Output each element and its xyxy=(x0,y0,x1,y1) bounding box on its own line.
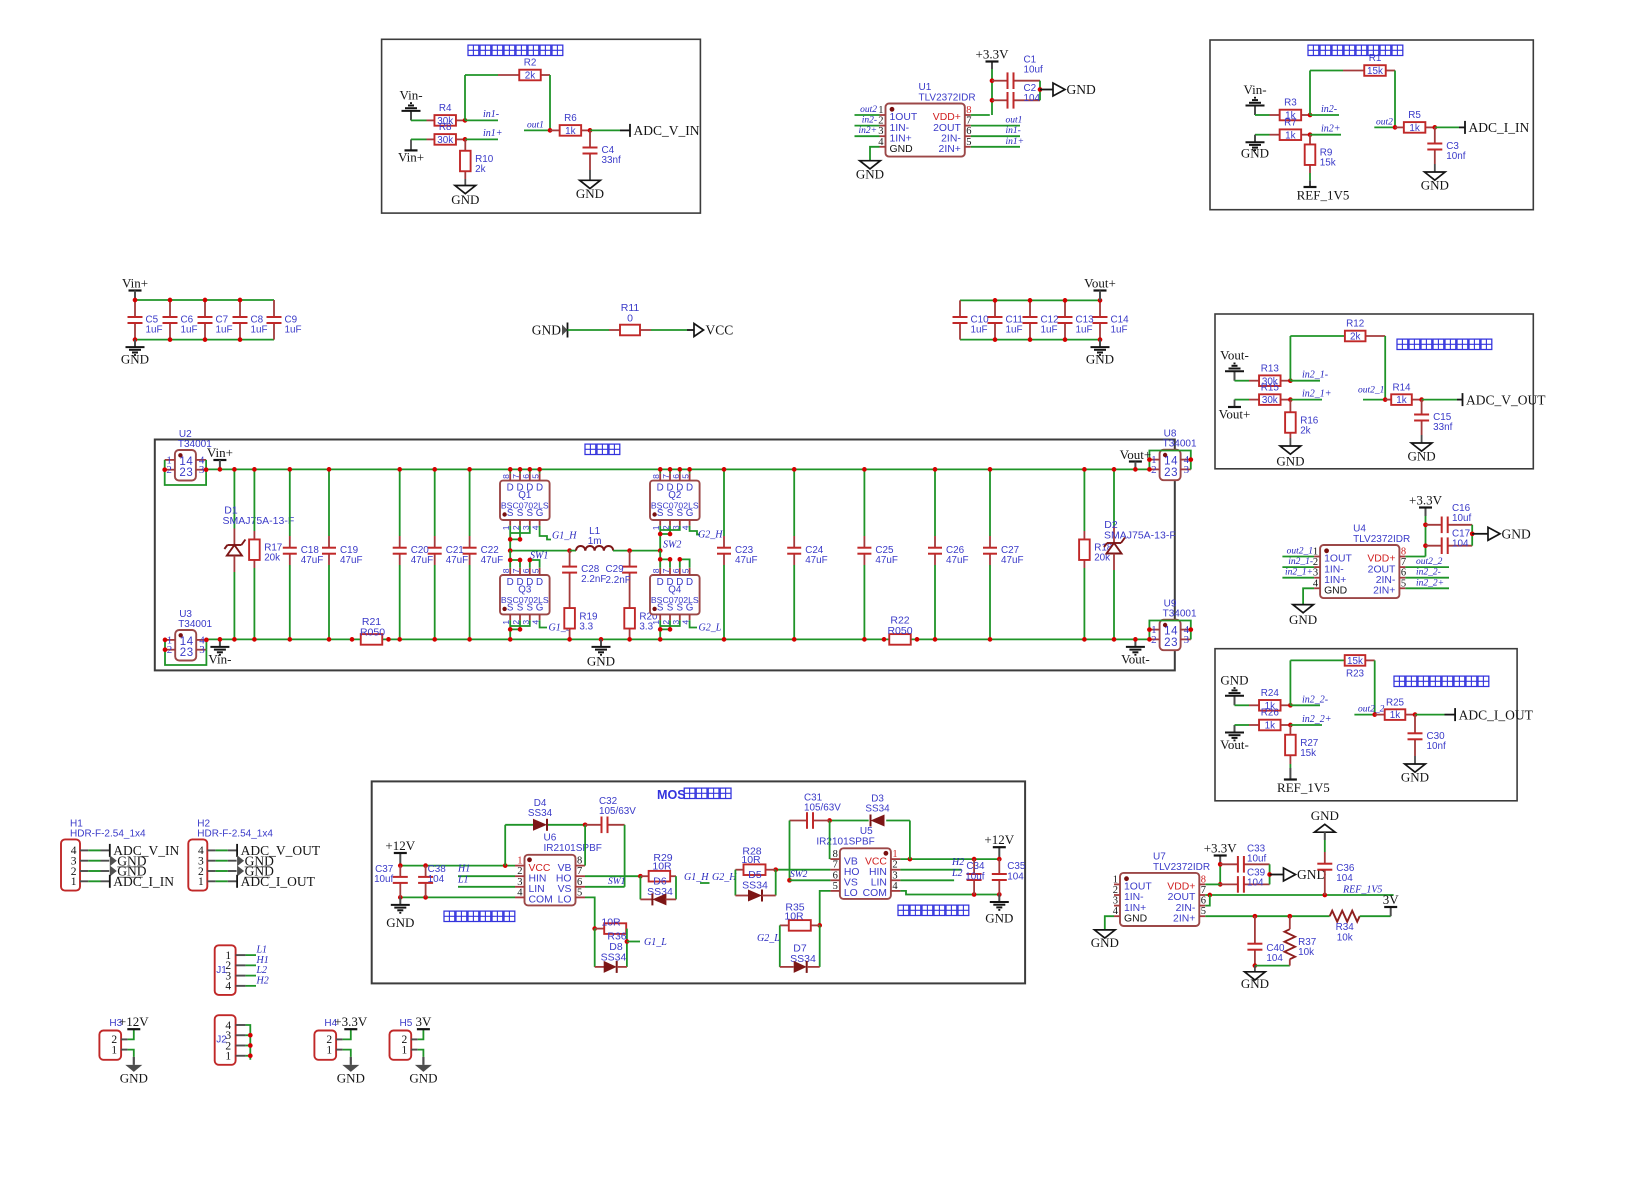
svg-text:in2-: in2- xyxy=(862,116,877,126)
svg-text:105/63V: 105/63V xyxy=(804,803,841,814)
capacitor C1 xyxy=(992,80,1008,82)
junction xyxy=(1432,125,1437,130)
svg-text:SW1: SW1 xyxy=(608,877,625,887)
svg-text:IR2101SPBF: IR2101SPBF xyxy=(544,843,602,854)
junction xyxy=(933,467,938,472)
ground xyxy=(1280,446,1301,454)
junction xyxy=(423,863,428,868)
junction xyxy=(1147,637,1152,642)
wire xyxy=(469,565,471,639)
svg-text:GND: GND xyxy=(121,352,149,367)
title input current sampling xyxy=(1308,45,1319,55)
svg-text:Q1: Q1 xyxy=(518,490,531,501)
svg-text:VCC: VCC xyxy=(706,323,734,338)
svg-text:47uF: 47uF xyxy=(946,555,969,566)
junction xyxy=(792,467,797,472)
svg-text:R050: R050 xyxy=(360,627,385,639)
resistor R23 xyxy=(1344,659,1346,661)
svg-text:30k: 30k xyxy=(1262,395,1278,406)
wire xyxy=(509,526,511,551)
capacitor C29 xyxy=(629,551,631,567)
svg-text:47uF: 47uF xyxy=(411,555,434,566)
svg-text:2k: 2k xyxy=(525,71,535,82)
wire xyxy=(1324,840,1326,852)
wire xyxy=(790,879,831,881)
svg-text:4: 4 xyxy=(1171,456,1178,468)
junction xyxy=(658,627,663,632)
svg-text:GND: GND xyxy=(576,186,604,201)
svg-text:R24: R24 xyxy=(1261,688,1280,699)
diode D1 xyxy=(227,544,241,546)
svg-text:8: 8 xyxy=(501,568,511,573)
wire xyxy=(1445,714,1456,716)
junction xyxy=(423,895,428,900)
svg-text:1IN+: 1IN+ xyxy=(1124,903,1146,914)
junction xyxy=(248,1053,253,1058)
junction xyxy=(658,548,663,553)
wire xyxy=(666,898,677,900)
svg-text:TLV2372IDR: TLV2372IDR xyxy=(1153,862,1210,873)
svg-text:in2_2-: in2_2- xyxy=(1302,694,1328,705)
svg-text:R2: R2 xyxy=(524,58,537,69)
svg-text:6: 6 xyxy=(671,474,681,479)
svg-text:8: 8 xyxy=(833,849,838,860)
svg-text:3V: 3V xyxy=(415,1014,432,1029)
svg-text:104: 104 xyxy=(1247,878,1264,889)
svg-text:in2+: in2+ xyxy=(858,126,877,136)
wire xyxy=(855,114,880,116)
junction xyxy=(638,874,643,879)
svg-text:IR2101SPBF: IR2101SPBF xyxy=(816,836,874,847)
svg-text:SMAJ75A-13-F: SMAJ75A-13-F xyxy=(223,515,295,527)
resistor R11 xyxy=(609,329,620,331)
junction xyxy=(658,557,663,562)
svg-text:+3.3V: +3.3V xyxy=(976,47,1010,62)
svg-text:104: 104 xyxy=(1452,539,1469,550)
junction xyxy=(168,337,173,342)
wire xyxy=(1289,660,1291,705)
svg-text:1: 1 xyxy=(71,876,77,888)
header H2 xyxy=(188,839,207,890)
wire xyxy=(679,559,681,567)
svg-text:8: 8 xyxy=(1401,547,1406,558)
svg-text:ADC_V_IN: ADC_V_IN xyxy=(634,123,700,138)
junction xyxy=(1308,132,1313,137)
svg-text:2k: 2k xyxy=(1300,426,1310,437)
capacitor C8 xyxy=(239,300,241,317)
wire xyxy=(246,1025,251,1060)
wire xyxy=(1457,399,1463,401)
svg-text:GND: GND xyxy=(1086,352,1114,367)
svg-text:HDR-F-2.54_1x4: HDR-F-2.54_1x4 xyxy=(197,828,273,839)
ground xyxy=(399,897,401,905)
wire xyxy=(723,565,725,639)
junction xyxy=(583,822,588,827)
wire xyxy=(1310,70,1343,72)
svg-text:1IN+: 1IN+ xyxy=(1324,575,1346,586)
wire xyxy=(246,1055,251,1057)
wire xyxy=(458,875,515,877)
junction xyxy=(677,467,682,472)
svg-text:2.2nF: 2.2nF xyxy=(581,574,606,585)
wire xyxy=(253,469,255,531)
svg-text:47uF: 47uF xyxy=(875,555,898,566)
svg-text:in2_2-: in2_2- xyxy=(1416,568,1441,578)
svg-text:Vout+: Vout+ xyxy=(1219,407,1251,422)
wire xyxy=(1040,89,1053,91)
svg-text:G2_L: G2_L xyxy=(699,623,722,634)
svg-text:out2_2: out2_2 xyxy=(1358,705,1385,715)
svg-text:Vout+: Vout+ xyxy=(1120,447,1152,462)
wire xyxy=(780,966,794,968)
svg-text:GND: GND xyxy=(1067,82,1096,97)
gate driver U5 xyxy=(840,848,891,899)
resistor R17 xyxy=(253,531,255,539)
capacitor C17 xyxy=(1426,545,1442,547)
wire xyxy=(820,891,831,926)
svg-text:2OUT: 2OUT xyxy=(933,123,961,134)
header H1 xyxy=(61,839,80,890)
svg-text:6: 6 xyxy=(966,126,971,137)
svg-text:2IN+: 2IN+ xyxy=(1373,586,1395,597)
ground xyxy=(600,639,602,647)
junction xyxy=(1288,703,1293,708)
junction xyxy=(1419,397,1424,402)
svg-text:47uF: 47uF xyxy=(735,555,758,566)
svg-text:Vout-: Vout- xyxy=(1220,348,1249,363)
svg-text:2: 2 xyxy=(167,644,173,656)
wire xyxy=(807,966,820,968)
svg-text:GND: GND xyxy=(1311,808,1339,823)
power flag +3.3V xyxy=(1219,856,1221,865)
wire xyxy=(613,550,660,552)
wire xyxy=(400,865,515,867)
junction xyxy=(773,867,778,872)
diode D2 xyxy=(1107,542,1121,544)
junction xyxy=(432,467,437,472)
wire xyxy=(960,299,1100,301)
svg-text:SW2: SW2 xyxy=(790,870,808,880)
svg-text:out1: out1 xyxy=(1006,116,1023,126)
svg-text:VCC: VCC xyxy=(865,856,887,867)
wire xyxy=(1310,114,1339,116)
op-amp U4 xyxy=(1320,545,1399,598)
wire xyxy=(1415,714,1445,716)
wire xyxy=(1235,704,1250,706)
junction xyxy=(567,637,572,642)
capacitor C33 xyxy=(1220,863,1238,865)
junction xyxy=(1133,637,1138,642)
svg-text:GND: GND xyxy=(1401,770,1429,785)
capacitor C34 xyxy=(973,859,975,874)
wire xyxy=(246,985,256,987)
box main circuit xyxy=(155,440,1175,671)
wire xyxy=(971,114,990,116)
junction xyxy=(252,637,257,642)
svg-text:1IN-: 1IN- xyxy=(1324,564,1344,575)
ground xyxy=(1234,696,1236,706)
svg-text:J1: J1 xyxy=(216,965,227,976)
wire xyxy=(1289,764,1291,768)
junction xyxy=(862,637,867,642)
global label ADC_V_IN xyxy=(629,124,631,137)
wire xyxy=(617,966,627,968)
svg-text:3: 3 xyxy=(186,467,192,479)
wire xyxy=(679,469,681,473)
power flag Vin- xyxy=(1254,106,1256,116)
svg-text:2: 2 xyxy=(166,464,172,476)
wire xyxy=(639,876,641,899)
junction xyxy=(1288,378,1293,383)
svg-text:2: 2 xyxy=(1113,885,1118,896)
capacitor C26 xyxy=(934,536,936,548)
junction xyxy=(1470,531,1475,536)
wire xyxy=(1310,134,1341,136)
svg-text:4: 4 xyxy=(1171,626,1178,638)
svg-text:1uF: 1uF xyxy=(146,325,163,336)
resistor R19 xyxy=(569,607,571,610)
svg-text:D: D xyxy=(507,483,514,494)
wire xyxy=(659,526,661,551)
svg-text:BSC0702LS: BSC0702LS xyxy=(651,595,699,605)
svg-text:+12V: +12V xyxy=(984,832,1014,847)
junction xyxy=(668,532,673,537)
svg-text:8: 8 xyxy=(577,856,582,867)
svg-text:2IN+: 2IN+ xyxy=(939,144,961,155)
wire xyxy=(584,825,586,866)
svg-text:6: 6 xyxy=(671,568,681,573)
svg-text:out2_1: out2_1 xyxy=(1287,547,1313,557)
svg-text:1: 1 xyxy=(517,856,522,867)
wire xyxy=(669,469,671,473)
junction xyxy=(398,863,403,868)
junction xyxy=(1308,113,1313,118)
wire xyxy=(410,139,412,150)
svg-text:104: 104 xyxy=(1266,953,1283,964)
svg-text:47uF: 47uF xyxy=(340,555,363,566)
junction xyxy=(599,637,604,642)
wire xyxy=(1235,380,1250,382)
svg-text:5: 5 xyxy=(681,474,691,479)
power flag +12V xyxy=(998,847,1000,859)
junction xyxy=(397,467,402,472)
junction xyxy=(527,467,532,472)
capacitor C39 xyxy=(1220,883,1238,885)
wire xyxy=(1290,335,1344,337)
wire xyxy=(510,620,520,629)
svg-text:104: 104 xyxy=(1024,93,1041,104)
power flag +12V xyxy=(127,1028,140,1030)
svg-text:7: 7 xyxy=(577,866,582,877)
wire xyxy=(659,620,661,639)
wire xyxy=(660,559,670,567)
junction xyxy=(1253,963,1258,968)
diode D5 xyxy=(748,890,762,902)
svg-text:GND: GND xyxy=(1241,146,1269,161)
svg-text:1: 1 xyxy=(326,1044,332,1056)
junction xyxy=(162,467,167,472)
svg-text:COM: COM xyxy=(529,895,553,906)
svg-text:J2: J2 xyxy=(216,1035,227,1046)
junction xyxy=(1063,337,1068,342)
junction xyxy=(398,895,403,900)
wire xyxy=(934,469,936,536)
junction xyxy=(1028,298,1033,303)
svg-text:in2_1-: in2_1- xyxy=(1288,557,1313,567)
wire xyxy=(504,825,506,866)
junction xyxy=(1218,882,1223,887)
junction xyxy=(933,637,938,642)
mosfet Q2 xyxy=(650,481,700,520)
junction xyxy=(658,467,663,472)
wire xyxy=(1309,173,1311,180)
wire xyxy=(1290,659,1344,661)
svg-text:TLV2372IDR: TLV2372IDR xyxy=(1353,534,1410,545)
global label ADC_V_OUT xyxy=(1462,393,1464,406)
header H4 xyxy=(314,1031,336,1060)
svg-text:2.2nF: 2.2nF xyxy=(606,575,631,586)
svg-text:D: D xyxy=(686,483,693,494)
wire xyxy=(418,1050,424,1057)
svg-text:2IN-: 2IN- xyxy=(1176,903,1196,914)
wire xyxy=(855,125,880,127)
ground xyxy=(1284,868,1296,881)
svg-text:1OUT: 1OUT xyxy=(1324,554,1352,565)
svg-text:10nf: 10nf xyxy=(1446,151,1465,162)
svg-text:1: 1 xyxy=(892,849,897,860)
svg-text:8: 8 xyxy=(651,474,661,479)
junction xyxy=(218,637,223,642)
capacitor C38 xyxy=(425,866,427,877)
svg-text:47uF: 47uF xyxy=(446,555,469,566)
wire xyxy=(246,1045,251,1047)
svg-text:105/63V: 105/63V xyxy=(599,806,636,817)
junction xyxy=(997,857,1002,862)
wire xyxy=(1282,577,1314,579)
wire xyxy=(1384,336,1386,400)
svg-text:7: 7 xyxy=(661,474,671,479)
power flag Vin+ xyxy=(405,149,418,151)
svg-text:G2_L: G2_L xyxy=(757,933,780,944)
svg-text:1: 1 xyxy=(1164,626,1170,638)
ground xyxy=(1293,605,1314,613)
svg-text:8: 8 xyxy=(501,474,511,479)
svg-text:LO: LO xyxy=(844,888,858,899)
junction xyxy=(990,78,995,83)
svg-text:SS34: SS34 xyxy=(742,880,768,892)
box MOS driver circuit xyxy=(372,781,1025,983)
junction xyxy=(567,548,572,553)
svg-text:U1: U1 xyxy=(919,82,932,93)
junction xyxy=(204,467,209,472)
svg-text:VB: VB xyxy=(558,863,572,874)
svg-text:R6: R6 xyxy=(564,113,577,124)
svg-text:1uF: 1uF xyxy=(1006,325,1023,336)
svg-text:R050: R050 xyxy=(887,625,912,637)
junction xyxy=(232,467,237,472)
connector J1 xyxy=(215,945,236,995)
global label ADC_I_IN xyxy=(1464,121,1466,134)
wire xyxy=(1405,577,1449,579)
svg-text:4: 4 xyxy=(517,887,523,898)
wire xyxy=(519,469,521,473)
power flag +12V xyxy=(399,853,401,866)
svg-text:G1_H: G1_H xyxy=(552,531,577,542)
wire xyxy=(509,620,511,639)
svg-text:1k: 1k xyxy=(1396,395,1406,406)
junction xyxy=(988,467,993,472)
wire xyxy=(1254,966,1256,972)
junction xyxy=(627,548,632,553)
svg-text:+12V: +12V xyxy=(119,1014,149,1029)
wire xyxy=(510,620,530,626)
svg-text:L1: L1 xyxy=(457,874,469,885)
junction xyxy=(988,637,993,642)
svg-text:T34001: T34001 xyxy=(1163,609,1197,620)
svg-text:G2_H: G2_H xyxy=(712,872,737,883)
svg-text:2: 2 xyxy=(179,467,185,479)
svg-text:U4: U4 xyxy=(1353,524,1366,535)
capacitor C5 xyxy=(134,300,136,317)
wire xyxy=(660,620,680,626)
wire xyxy=(233,572,235,639)
svg-text:R5: R5 xyxy=(1408,110,1421,121)
wire xyxy=(510,526,530,533)
wire xyxy=(900,869,961,871)
svg-text:10uf: 10uf xyxy=(1452,513,1471,524)
ground xyxy=(1245,972,1266,980)
svg-text:1uF: 1uF xyxy=(181,325,198,336)
svg-text:10k: 10k xyxy=(1298,947,1314,958)
svg-text:1IN+: 1IN+ xyxy=(890,133,912,144)
capacitor C7 xyxy=(204,300,206,317)
global label ADC_I_OUT xyxy=(236,875,238,888)
resistor R26 xyxy=(1249,724,1259,726)
wire xyxy=(246,954,256,956)
junction xyxy=(432,637,437,642)
wire xyxy=(829,821,831,860)
inductor L1 xyxy=(576,546,585,551)
junction xyxy=(1218,862,1223,867)
svg-text:C29: C29 xyxy=(606,564,625,575)
svg-text:VCC: VCC xyxy=(529,863,551,874)
ground xyxy=(1053,83,1065,96)
svg-text:GND: GND xyxy=(587,653,615,668)
svg-text:H1: H1 xyxy=(457,864,470,875)
resistor R29 xyxy=(640,875,648,877)
svg-text:Vin-: Vin- xyxy=(399,87,422,102)
svg-text:7: 7 xyxy=(1201,885,1206,896)
svg-text:10uf: 10uf xyxy=(965,872,984,883)
junction xyxy=(463,118,468,123)
resistor R1 xyxy=(1343,70,1364,72)
wire xyxy=(971,135,1020,137)
wire xyxy=(1205,895,1210,906)
svg-text:GND: GND xyxy=(120,1070,148,1085)
svg-text:4: 4 xyxy=(892,881,898,892)
wire xyxy=(594,929,596,967)
wire xyxy=(590,129,620,131)
wire xyxy=(1234,400,1236,407)
title input voltage sampling xyxy=(468,45,479,55)
wire xyxy=(624,825,626,887)
svg-text:R14: R14 xyxy=(1392,382,1411,393)
junction xyxy=(972,892,977,897)
svg-text:1: 1 xyxy=(401,1044,407,1056)
svg-text:15k: 15k xyxy=(1300,748,1316,759)
wire xyxy=(1290,704,1320,706)
wire xyxy=(399,469,401,536)
